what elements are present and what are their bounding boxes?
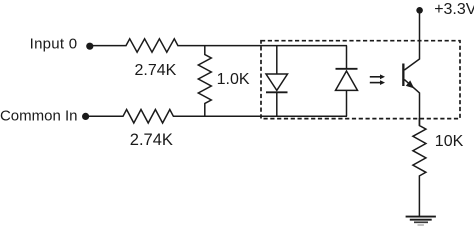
svg-text:+3.3V: +3.3V bbox=[434, 1, 474, 18]
svg-text:Common In: Common In bbox=[0, 107, 78, 124]
svg-text:2.74K: 2.74K bbox=[130, 131, 173, 149]
svg-text:10K: 10K bbox=[435, 133, 464, 150]
svg-text:1.0K: 1.0K bbox=[217, 71, 250, 88]
svg-text:Input 0: Input 0 bbox=[30, 36, 78, 53]
svg-text:2.74K: 2.74K bbox=[135, 62, 177, 79]
